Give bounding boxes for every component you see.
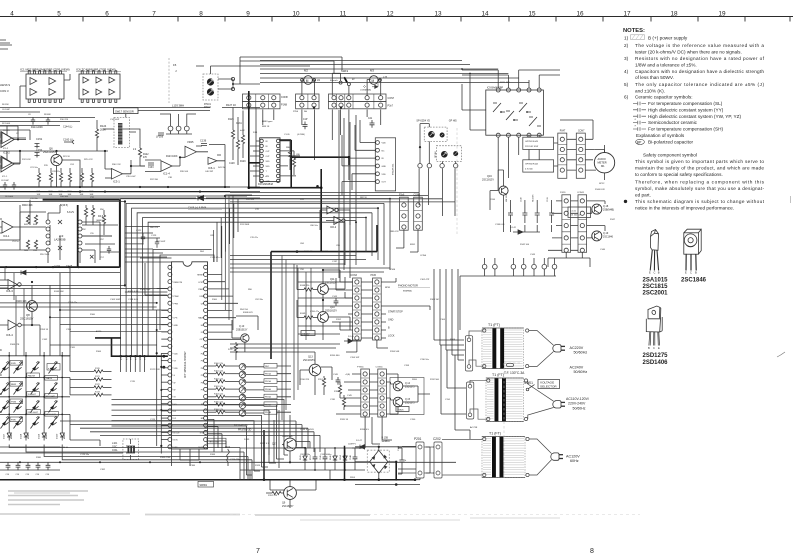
svg-text:R149: R149 bbox=[300, 313, 306, 315]
svg-text:50/60Hz: 50/60Hz bbox=[574, 370, 588, 374]
svg-text:4148: 4148 bbox=[64, 433, 66, 439]
svg-text:R39 10K: R39 10K bbox=[180, 171, 189, 173]
pin bbox=[564, 199, 568, 203]
photo sensor dashed box bbox=[114, 118, 130, 148]
key diode bbox=[14, 362, 23, 374]
svg-text:16: 16 bbox=[576, 10, 584, 17]
svg-text:R103 2.2k: R103 2.2k bbox=[214, 386, 223, 388]
svg-text:CON7: CON7 bbox=[388, 97, 395, 100]
svg-text:PB 5A: PB 5A bbox=[265, 373, 271, 376]
wire pin stub bbox=[161, 309, 168, 311]
svg-text:PTN3: PTN3 bbox=[136, 355, 138, 360]
svg-text:E: E bbox=[649, 271, 651, 275]
CON3/P345 cell dividers bbox=[353, 285, 382, 287]
key diode bbox=[49, 362, 58, 374]
svg-text:IC3-1: IC3-1 bbox=[113, 180, 120, 184]
pin bbox=[355, 296, 359, 300]
connector CON7/P3x7 bbox=[365, 96, 369, 100]
open terminal circles below boxes bbox=[418, 164, 422, 168]
pin bbox=[168, 351, 172, 355]
svg-text:R2 100K: R2 100K bbox=[2, 123, 11, 125]
wire pin stub bbox=[161, 381, 168, 383]
svg-text:+: + bbox=[405, 458, 407, 462]
svg-text:to conform to special safety s: to conform to special safety specificati… bbox=[635, 172, 723, 177]
pin bbox=[527, 133, 531, 137]
svg-text:7: 7 bbox=[256, 548, 260, 555]
svg-text:IC1-2: IC1-2 bbox=[3, 148, 9, 150]
components near Q10b bbox=[234, 344, 237, 353]
svg-text:11: 11 bbox=[340, 10, 347, 17]
pin bbox=[204, 337, 208, 341]
wire pin stub bbox=[161, 367, 168, 369]
svg-text:C160 (L): C160 (L) bbox=[63, 138, 73, 142]
pin bbox=[380, 412, 384, 416]
faint service text lines bbox=[8, 491, 88, 505]
svg-text:Therefore, when replacing a co: Therefore, when replacing a component wi… bbox=[635, 179, 765, 184]
svg-text:R157 4.7: R157 4.7 bbox=[260, 443, 270, 445]
BP bi-polarized symbol bbox=[636, 139, 645, 144]
resistor R10x bbox=[208, 365, 216, 367]
svg-text:SP-02D4 YD: SP-02D4 YD bbox=[416, 120, 430, 123]
component vertical bbox=[303, 452, 307, 464]
ruler tick bbox=[35, 17, 37, 22]
svg-text:IC8 GM6454Z: IC8 GM6454Z bbox=[258, 183, 274, 186]
svg-text:R10B 470: R10B 470 bbox=[243, 312, 254, 314]
svg-text:D146: D146 bbox=[330, 455, 332, 460]
wire to box bbox=[246, 396, 291, 399]
output label box bbox=[264, 371, 277, 376]
capacitor bbox=[46, 462, 51, 470]
wire pin stub bbox=[161, 331, 168, 333]
pin bbox=[168, 287, 172, 291]
op-amp IC2-2 bbox=[2, 158, 12, 169]
wires P311 left bbox=[342, 143, 376, 182]
wires upper area connecting IC1 inset row bbox=[0, 118, 95, 126]
svg-text:T1 (FT): T1 (FT) bbox=[489, 432, 501, 436]
key diode bbox=[31, 417, 40, 429]
wires IC8 left bbox=[250, 141, 260, 176]
pin bbox=[204, 387, 208, 391]
fan F1 right verticals bbox=[217, 199, 238, 262]
svg-text:C80 10u: C80 10u bbox=[310, 225, 319, 227]
svg-text:C138 0.01: C138 0.01 bbox=[495, 224, 505, 226]
pin bbox=[204, 351, 208, 355]
resistor vertical bbox=[80, 173, 83, 182]
svg-text:SELECTOR: SELECTOR bbox=[540, 385, 557, 389]
svg-text:R150 560: R150 560 bbox=[330, 355, 340, 357]
pin bbox=[276, 144, 279, 147]
svg-text:D117: D117 bbox=[4, 433, 6, 439]
voltage selector box bbox=[538, 380, 560, 389]
output label box bbox=[264, 410, 277, 415]
boxed label C141 bbox=[568, 207, 591, 217]
pin bbox=[380, 396, 384, 400]
pin bbox=[580, 236, 584, 240]
svg-text:60Hz: 60Hz bbox=[570, 459, 579, 463]
svg-text:PB 8A: PB 8A bbox=[265, 411, 271, 414]
op-amp cluster 1 feedback bbox=[0, 126, 26, 140]
wires inverters bbox=[320, 210, 356, 240]
svg-text:R204: R204 bbox=[350, 477, 356, 479]
pin bbox=[375, 280, 379, 284]
SW17 sensor label box bbox=[114, 108, 139, 114]
pin bbox=[579, 158, 583, 162]
photodiode D13x bbox=[239, 402, 246, 409]
ruler tick bbox=[650, 17, 652, 22]
svg-text:6: 6 bbox=[105, 10, 109, 17]
svg-text:R16 56K: R16 56K bbox=[60, 196, 69, 198]
wires below CON6 to inverters area bbox=[396, 230, 418, 252]
pin bbox=[580, 248, 584, 252]
svg-text:C40 33P: C40 33P bbox=[205, 171, 214, 173]
pin bbox=[168, 337, 172, 341]
svg-text:2SC1815Y: 2SC1815Y bbox=[303, 359, 315, 362]
svg-text:C51 1u: C51 1u bbox=[12, 241, 20, 243]
svg-text:C178 33u: C178 33u bbox=[80, 454, 90, 456]
ruler tick bbox=[177, 17, 179, 22]
svg-text:D120: D120 bbox=[57, 433, 59, 439]
svg-text:PTN11: PTN11 bbox=[357, 367, 364, 369]
svg-text:C163 100P: C163 100P bbox=[110, 299, 121, 301]
svg-text:R88 4.7K: R88 4.7K bbox=[390, 231, 399, 233]
wire pin stub bbox=[161, 417, 168, 419]
pin bbox=[168, 344, 172, 348]
svg-text:C: C bbox=[690, 271, 692, 275]
svg-text:C: C bbox=[653, 346, 655, 350]
pin bbox=[168, 316, 172, 320]
test circles to bundle bbox=[460, 269, 556, 330]
svg-text:R188: R188 bbox=[210, 454, 216, 456]
key diode bbox=[31, 383, 40, 395]
svg-text:GP HI5: GP HI5 bbox=[449, 120, 457, 123]
verticals to T2 bracket bbox=[441, 345, 466, 414]
svg-text:60mm/s: 60mm/s bbox=[330, 80, 339, 82]
svg-text:T1 (FT): T1 (FT) bbox=[492, 373, 504, 377]
wires below matrix bbox=[0, 447, 456, 470]
pin bbox=[168, 272, 172, 276]
pin bbox=[560, 147, 564, 151]
svg-text:50/60Hz: 50/60Hz bbox=[573, 406, 586, 410]
svg-text:PTN2: PTN2 bbox=[131, 355, 133, 360]
svg-text:High dielectric constant syste: High dielectric constant system (YW, YP,… bbox=[648, 114, 741, 119]
pin bbox=[260, 174, 263, 177]
TEST stop label bbox=[207, 438, 226, 444]
dashed separator line bbox=[168, 58, 170, 103]
resistor vertical bbox=[37, 173, 40, 182]
extra verticals left edge to matrix bbox=[5, 267, 24, 356]
transistor Q15 bbox=[393, 397, 403, 407]
wires left opamps bbox=[0, 135, 26, 166]
pin bbox=[375, 320, 379, 324]
capacitor bbox=[26, 462, 31, 470]
svg-text:C144 (L): C144 (L) bbox=[63, 126, 73, 129]
wire meter left bbox=[560, 120, 605, 153]
trimmer pot 1 bbox=[207, 79, 213, 85]
wire T1 to plug bbox=[529, 331, 554, 367]
wire to box bbox=[246, 411, 291, 414]
svg-text:R74 330K: R74 330K bbox=[240, 224, 250, 226]
wires CON3 left bbox=[332, 282, 353, 330]
wires above IC9 bbox=[462, 70, 560, 88]
svg-text:maintain the safety of the pro: maintain the safety of the product, and … bbox=[635, 166, 764, 171]
wire T2 to plug bbox=[528, 381, 554, 420]
pin bbox=[580, 211, 584, 215]
svg-text:R164 330K: R164 330K bbox=[140, 289, 151, 291]
resistor R10x bbox=[208, 396, 216, 398]
key diode bbox=[1, 362, 10, 374]
pin bbox=[355, 280, 359, 284]
wire bracket to T2 bbox=[470, 380, 487, 419]
op-amp IC3-1 bbox=[112, 169, 123, 180]
wire y272.6 below servo box bbox=[0, 272, 120, 274]
left edge stubs bbox=[0, 133, 1, 168]
svg-text:C162: C162 bbox=[42, 339, 48, 341]
svg-text:R98 68K: R98 68K bbox=[320, 251, 329, 253]
wire fan F3 bbox=[60, 421, 320, 435]
pin bbox=[204, 330, 208, 334]
svg-text:PR37B7-3D: PR37B7-3D bbox=[238, 428, 252, 431]
svg-text:5: 5 bbox=[57, 10, 61, 17]
pin bbox=[402, 225, 406, 229]
svg-text:GACB: GACB bbox=[46, 377, 53, 380]
svg-text:2SB1015Y: 2SB1015Y bbox=[236, 328, 248, 331]
svg-text:P346: P346 bbox=[390, 269, 396, 271]
svg-text:B (+) power supply: B (+) power supply bbox=[648, 36, 688, 41]
svg-text:101 500 1/2: 101 500 1/2 bbox=[570, 215, 581, 217]
svg-text:R30 2.2K: R30 2.2K bbox=[112, 164, 121, 166]
transistor Q9 bbox=[284, 487, 297, 500]
capacitor bbox=[508, 205, 513, 223]
svg-text:START/STOP: START/STOP bbox=[388, 311, 403, 314]
svg-text:R1 47K: R1 47K bbox=[3, 130, 11, 132]
svg-text:R153: R153 bbox=[310, 455, 312, 460]
wires GP boxes bbox=[498, 135, 558, 190]
pin bbox=[260, 149, 263, 152]
svg-text:AC110V-120V/: AC110V-120V/ bbox=[566, 397, 589, 401]
svg-text:C11 33u: C11 33u bbox=[30, 198, 39, 200]
svg-text:L04 100uF: L04 100uF bbox=[506, 192, 508, 202]
pin bbox=[204, 445, 208, 449]
key diode bbox=[49, 417, 58, 429]
pin bbox=[260, 164, 263, 167]
svg-text:C136: C136 bbox=[200, 139, 207, 143]
pin bbox=[276, 149, 279, 152]
pin bbox=[560, 137, 564, 141]
components between IC8 and P311 bbox=[288, 150, 291, 159]
svg-text:PTN4: PTN4 bbox=[140, 355, 142, 360]
svg-text:12: 12 bbox=[386, 10, 394, 17]
pin bbox=[168, 409, 172, 413]
svg-text:15: 15 bbox=[528, 10, 536, 17]
pin bbox=[380, 372, 384, 376]
ruler baseline bbox=[0, 16, 793, 18]
pin bbox=[204, 294, 208, 298]
svg-text:C1 41: C1 41 bbox=[570, 211, 577, 213]
svg-text:Semiconductor ceramic: Semiconductor ceramic bbox=[648, 120, 698, 125]
svg-text:2SA1015Y: 2SA1015Y bbox=[43, 150, 57, 154]
svg-text:Q16: Q16 bbox=[487, 175, 492, 178]
svg-text:Q.19: Q.19 bbox=[603, 232, 609, 235]
svg-text:F.LIGHT: F.LIGHT bbox=[28, 394, 37, 396]
test point bbox=[482, 264, 487, 269]
svg-text:IC1-4: IC1-4 bbox=[163, 172, 170, 176]
svg-text:Ceramic capacitor symbols:: Ceramic capacitor symbols: bbox=[635, 95, 693, 100]
wires IC7 left pin rows to left verticals bbox=[0, 296, 168, 345]
wire row y201.5 bbox=[0, 201, 125, 203]
SW801 box label bbox=[198, 481, 214, 487]
svg-text:P250: P250 bbox=[293, 111, 299, 113]
pin bbox=[204, 287, 208, 291]
output label box bbox=[264, 394, 277, 399]
pin bbox=[260, 159, 263, 162]
fan F2 horizontal returns bbox=[247, 455, 289, 475]
svg-text:C165: C165 bbox=[70, 347, 76, 349]
pin bbox=[363, 396, 367, 400]
svg-text:C146: C146 bbox=[320, 455, 322, 460]
wire pin stub bbox=[161, 345, 168, 347]
ruler tick bbox=[224, 17, 226, 22]
svg-text:C158 0.01: C158 0.01 bbox=[128, 299, 139, 301]
svg-text:2SC1815Y: 2SC1815Y bbox=[282, 505, 294, 508]
bold bottom bus bbox=[0, 430, 415, 480]
wire pin stub bbox=[161, 360, 168, 362]
op-amp IC1-4 bbox=[161, 161, 172, 172]
component vertical bbox=[313, 452, 318, 464]
svg-text:D.15B: D.15B bbox=[382, 438, 389, 440]
pin bbox=[355, 304, 359, 308]
matrix bottom diodes to staircase wires bbox=[9, 445, 220, 460]
svg-text:RPM: RPM bbox=[385, 287, 390, 289]
svg-text:D1 47: D1 47 bbox=[356, 440, 363, 442]
svg-text:PAUSE: PAUSE bbox=[28, 374, 36, 377]
svg-text:C6 100P: C6 100P bbox=[1, 180, 9, 182]
svg-text:C174: C174 bbox=[150, 419, 156, 421]
svg-text:CON11: CON11 bbox=[376, 367, 384, 369]
inverter IC6-4 bbox=[8, 320, 17, 330]
pin bbox=[376, 172, 380, 176]
pin bbox=[204, 308, 208, 312]
svg-text:R172 2.2K: R172 2.2K bbox=[150, 369, 160, 371]
svg-text:15: 15 bbox=[173, 63, 177, 67]
junction dots misc bbox=[248, 106, 250, 108]
svg-text:5): 5) bbox=[624, 82, 629, 87]
pin bbox=[168, 430, 172, 434]
schematic change bullet bbox=[624, 200, 627, 203]
components in servo box bbox=[84, 208, 87, 217]
svg-text:C152: C152 bbox=[36, 148, 43, 152]
diode D on wire bbox=[21, 270, 26, 274]
svg-text:P345: P345 bbox=[371, 275, 377, 277]
pin bbox=[355, 288, 359, 292]
svg-text:18: 18 bbox=[670, 10, 678, 17]
svg-text:REMOTE: REMOTE bbox=[174, 282, 183, 284]
pin bbox=[537, 133, 541, 137]
svg-text:COIL: COIL bbox=[112, 449, 118, 452]
svg-text:METER: METER bbox=[598, 161, 607, 165]
wires right strips bbox=[548, 201, 605, 250]
svg-text:R21 1K: R21 1K bbox=[63, 156, 71, 158]
svg-text:For temperature compensation (: For temperature compensation (SL) bbox=[648, 101, 723, 106]
svg-text:C6 100P: C6 100P bbox=[2, 109, 10, 111]
svg-text:GND: GND bbox=[382, 166, 387, 168]
wires PTN11-CON11 bbox=[369, 374, 377, 414]
svg-text:R126: R126 bbox=[228, 118, 234, 121]
pin bbox=[168, 395, 172, 399]
svg-text:L103 3MH: L103 3MH bbox=[172, 104, 184, 108]
switch SW01 bbox=[526, 388, 529, 391]
svg-text:C62 100P: C62 100P bbox=[156, 241, 166, 243]
pin bbox=[416, 203, 420, 207]
pin bbox=[276, 174, 279, 177]
svg-text:2SC1815: 2SC1815 bbox=[643, 284, 669, 290]
svg-text:C118: C118 bbox=[330, 399, 336, 401]
svg-text:C122: C122 bbox=[136, 230, 142, 232]
wire F1 right verticals down bbox=[345, 199, 390, 270]
wire to box bbox=[246, 404, 291, 407]
svg-text:T.F. 130°C-3A: T.F. 130°C-3A bbox=[504, 371, 525, 375]
resistor R17x bbox=[70, 378, 94, 380]
extra horizontals mid-left bbox=[125, 227, 172, 259]
relay contacts inside IC9 bbox=[493, 103, 541, 126]
GP7B2 box 1 bbox=[523, 137, 554, 149]
svg-text:B OUT: B OUT bbox=[174, 433, 181, 435]
wires Q11 Q10 bbox=[297, 265, 350, 340]
transistor package TO-220 2SD1275/2SD1406 bbox=[646, 306, 662, 346]
pin bbox=[168, 416, 172, 420]
svg-text:4: 4 bbox=[10, 10, 14, 17]
svg-text:C133: C133 bbox=[148, 167, 154, 169]
svg-text:RT102: RT102 bbox=[204, 107, 212, 109]
packages bbox=[643, 229, 786, 366]
svg-text:NOTES:: NOTES: bbox=[623, 28, 645, 34]
pin bbox=[375, 336, 379, 340]
faint dotted guide bbox=[230, 513, 640, 515]
pin bbox=[375, 312, 379, 316]
pin bbox=[168, 294, 172, 298]
wires down from right section bbox=[462, 75, 486, 130]
pin bbox=[276, 179, 279, 182]
pin bbox=[416, 214, 420, 218]
vertical bundle below PTN11 bbox=[352, 417, 392, 448]
matrix to fan wires bbox=[62, 356, 70, 395]
capacitor bbox=[522, 205, 527, 223]
svg-text:8: 8 bbox=[199, 10, 203, 17]
components left of PTN11 bbox=[338, 385, 341, 394]
svg-text:R161 4.7K: R161 4.7K bbox=[128, 291, 139, 293]
diode D11x bbox=[60, 430, 64, 441]
svg-text:13: 13 bbox=[434, 10, 442, 17]
svg-text:IC1-1: IC1-1 bbox=[2, 176, 8, 178]
pin bbox=[260, 154, 263, 157]
pin bbox=[204, 402, 208, 406]
pin bbox=[168, 438, 172, 442]
svg-text:VDD: VDD bbox=[266, 166, 271, 168]
svg-text:MSL(P) 311: MSL(P) 311 bbox=[393, 163, 395, 175]
wire to box bbox=[246, 388, 291, 391]
output label box bbox=[264, 402, 277, 407]
svg-text:R55 150K: R55 150K bbox=[40, 254, 50, 256]
pin bbox=[168, 330, 172, 334]
svg-text:2SB(M4B): 2SB(M4B) bbox=[603, 209, 614, 212]
AC plug 2 bbox=[553, 401, 561, 408]
right transistor Q19 bbox=[592, 231, 602, 241]
junction dots on long buses bbox=[79, 191, 81, 193]
wire pin stub bbox=[161, 410, 168, 412]
svg-text:P3x6: P3x6 bbox=[399, 195, 405, 197]
key diode bbox=[49, 401, 58, 413]
pin bbox=[416, 225, 420, 229]
svg-text:C16: C16 bbox=[26, 474, 29, 476]
